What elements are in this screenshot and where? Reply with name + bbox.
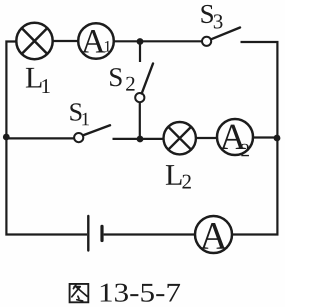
switch S1 blade — [83, 125, 110, 135]
wire A1 to S3 — [115, 40, 203, 42]
wire left to S1 — [6, 137, 75, 139]
node junction top (S2 tap) — [137, 38, 144, 45]
switch S2 blade — [142, 64, 153, 94]
ammeter U1 A1 — [78, 23, 114, 59]
wire right frame (S3 to corner, right side, bottom-right run) — [233, 42, 278, 235]
switch S3 blade — [211, 28, 240, 40]
node junction middle (S2 bottom) — [137, 136, 144, 143]
label L1 — [26, 68, 50, 93]
wire L1 to A1 — [54, 40, 79, 42]
switch S2 pivot — [135, 93, 144, 102]
label A1 in meter — [81, 30, 110, 52]
node junction left middle — [3, 134, 10, 141]
label L2 — [166, 165, 191, 188]
node junction right middle — [274, 135, 281, 142]
label S3 — [201, 5, 222, 29]
switch S1 pivot — [74, 133, 83, 142]
wire A2 to right — [254, 136, 278, 138]
label S1 — [70, 103, 89, 125]
wire S1 to L2 — [113, 138, 165, 140]
ammeter U3 A — [195, 216, 232, 253]
label S2 — [110, 68, 134, 90]
wire S2 to middle junction — [139, 102, 141, 139]
label A in meter — [200, 223, 227, 249]
lamp L1 — [16, 23, 52, 59]
caption character tu (figure) — [70, 284, 89, 302]
ammeter U2 A2 — [217, 119, 253, 155]
battery BT1 short plate — [100, 226, 103, 240]
caption figure number 13-5-7 — [101, 284, 180, 302]
label A2 in meter — [220, 125, 249, 157]
battery BT1 long plate — [87, 216, 89, 251]
lamp L2 — [164, 122, 196, 154]
switch S3 pivot — [202, 37, 211, 46]
wire S2 upper stub — [139, 42, 141, 63]
wire left frame (top-left corner, left side, bottom-left run) — [6, 42, 87, 235]
wire battery to ammeter A — [104, 233, 195, 235]
wire L2 to A2 — [197, 137, 218, 139]
